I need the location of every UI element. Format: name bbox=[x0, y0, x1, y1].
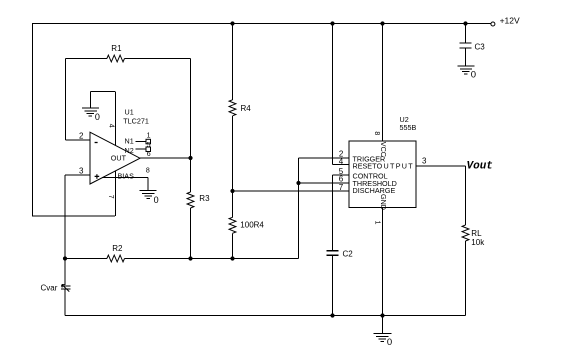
wire RL bottom lead bbox=[465, 241, 467, 316]
svg-text:DISCHARGE: DISCHARGE bbox=[353, 186, 396, 195]
svg-text:3: 3 bbox=[79, 167, 84, 176]
wire 555 threshold pin 6 bbox=[299, 182, 350, 184]
svg-text:VCC: VCC bbox=[379, 142, 388, 157]
svg-text:4: 4 bbox=[108, 124, 115, 128]
wire op-amp bias pin 8 bbox=[102, 177, 148, 179]
capacitor C3 bbox=[465, 24, 467, 43]
wire feedback loop left vertical bbox=[65, 59, 67, 141]
svg-text:8: 8 bbox=[373, 131, 380, 135]
wire outer bottom horizontal to op-amp pin7 bbox=[33, 215, 116, 217]
junction node bottom rail / gnd pin bbox=[381, 314, 384, 317]
resistor 100R4 bbox=[229, 217, 236, 233]
wire R4 to 100R4 bbox=[232, 116, 234, 218]
wire Cvar bottom lead bbox=[64, 289, 66, 316]
svg-text:U1: U1 bbox=[125, 108, 134, 117]
svg-text:5: 5 bbox=[147, 142, 151, 149]
wire 555 reset pin 4 bbox=[333, 164, 350, 166]
wire 555 gnd pin 1 vertical bbox=[382, 208, 384, 334]
svg-text:0: 0 bbox=[154, 195, 159, 205]
resistor R3 bbox=[187, 192, 194, 208]
wire feedback loop top (R1 left lead) bbox=[66, 58, 107, 60]
resistor R2 bbox=[107, 255, 125, 262]
svg-text:10k: 10k bbox=[471, 238, 485, 247]
resistor R4 bbox=[229, 100, 236, 116]
svg-text:GND: GND bbox=[379, 194, 388, 210]
op-amp N1 terminal square bbox=[146, 139, 151, 144]
svg-text:0: 0 bbox=[95, 112, 100, 122]
junction node discharge / 100R4 bbox=[231, 189, 234, 192]
svg-text:1: 1 bbox=[147, 132, 151, 139]
wire R2 line left lead bbox=[65, 258, 107, 260]
wire op-amp pin 4 vertical bbox=[115, 92, 117, 145]
wire 555 vcc pin 8 vertical bbox=[382, 24, 384, 142]
wire pin4 ground horizontal bbox=[90, 91, 115, 93]
wire feedback loop right vertical bbox=[190, 59, 192, 159]
op-amp N1 offset pin lead bbox=[136, 141, 147, 143]
wire 100R4 bottom lead bbox=[232, 233, 234, 258]
junction node R2 line / R3 bbox=[189, 257, 192, 260]
svg-text:Vout: Vout bbox=[467, 160, 493, 172]
svg-text:4: 4 bbox=[339, 157, 344, 166]
svg-text:100R4: 100R4 bbox=[240, 220, 264, 229]
svg-text:8: 8 bbox=[146, 167, 150, 174]
svg-text:7: 7 bbox=[339, 183, 344, 192]
ground at 555 gnd bbox=[373, 334, 391, 342]
capacitor C2 bbox=[327, 251, 339, 255]
junction node top rail / C3 bbox=[464, 22, 467, 25]
svg-text:+12V: +12V bbox=[500, 16, 520, 26]
svg-text:TLC271: TLC271 bbox=[123, 117, 149, 126]
svg-text:RL: RL bbox=[471, 229, 482, 238]
terminal +12V circle bbox=[491, 22, 495, 26]
wire 555 discharge pin 7 bbox=[233, 190, 350, 192]
wire Cvar top lead bbox=[64, 259, 66, 286]
wire trigger riser vertical bbox=[298, 158, 300, 258]
svg-text:6: 6 bbox=[147, 151, 151, 158]
resistor RL bbox=[462, 225, 469, 241]
ground at op-amp bias bbox=[140, 191, 157, 199]
junction node op-amp output bbox=[189, 156, 192, 159]
svg-text:C3: C3 bbox=[475, 43, 486, 52]
wire R3 top lead bbox=[190, 158, 192, 192]
junction node top rail / R4 bbox=[231, 22, 234, 25]
op-amp N2 terminal square bbox=[146, 147, 151, 152]
op-amp N2 offset pin lead bbox=[136, 148, 147, 150]
IC U2 555B body bbox=[349, 141, 416, 207]
svg-text:3: 3 bbox=[422, 157, 427, 166]
svg-text:OUTPUT: OUTPUT bbox=[377, 162, 414, 171]
wire 555 control pin 5 bbox=[333, 174, 350, 176]
svg-text:0: 0 bbox=[471, 70, 476, 81]
svg-text:OUT: OUT bbox=[111, 154, 127, 163]
wire R4 branch top lead bbox=[232, 24, 234, 100]
wire bottom ground rail bbox=[65, 315, 466, 317]
wire Vout vertical to RL bbox=[465, 166, 467, 225]
svg-text:0: 0 bbox=[387, 337, 392, 348]
junction node top rail / vcc bbox=[381, 22, 384, 25]
svg-text:C2: C2 bbox=[343, 250, 354, 259]
wire control to C2 vertical bbox=[332, 175, 334, 250]
wire bias ground stub bbox=[147, 178, 149, 191]
wire op-amp pin 2 input bbox=[66, 139, 91, 141]
junction node bottom rail / C2 bbox=[331, 314, 334, 317]
svg-text:2: 2 bbox=[79, 132, 84, 141]
wire op-amp pin 7 vertical bbox=[115, 171, 117, 216]
wire top +12V rail bbox=[32, 23, 491, 25]
svg-text:R2: R2 bbox=[112, 244, 123, 253]
svg-text:BIAS: BIAS bbox=[118, 172, 135, 181]
junction node R2 line / 100R4 bbox=[231, 257, 234, 260]
resistor R1 bbox=[107, 55, 125, 62]
svg-text:Cvar: Cvar bbox=[41, 284, 58, 293]
svg-text:555B: 555B bbox=[400, 123, 417, 132]
junction node R2 line / pin3 bbox=[63, 257, 66, 260]
svg-text:1: 1 bbox=[373, 221, 380, 225]
junction node threshold / trigger bbox=[297, 181, 300, 184]
wire C2 bottom lead bbox=[332, 256, 334, 316]
wire R3 bottom lead bbox=[190, 208, 192, 259]
wire pin3 vertical down to R2 line bbox=[64, 175, 66, 259]
svg-text:7: 7 bbox=[107, 195, 114, 199]
wire op-amp pin 3 input bbox=[65, 174, 90, 176]
junction node top rail / reset bbox=[331, 22, 334, 25]
wire 555 reset pin 4 vertical from rail bbox=[332, 24, 334, 165]
svg-text:RESET: RESET bbox=[353, 162, 378, 171]
wire R2 line right bbox=[125, 258, 299, 260]
svg-text:R3: R3 bbox=[199, 194, 210, 203]
ground under C3 bbox=[457, 66, 474, 74]
svg-text:R1: R1 bbox=[111, 44, 122, 53]
ground at op-amp pin 4 bbox=[82, 108, 99, 116]
op-amp minus sign bbox=[95, 142, 98, 144]
op-amp U1 triangle bbox=[90, 132, 140, 184]
wire 555 output pin 3 bbox=[416, 165, 466, 167]
svg-text:R4: R4 bbox=[241, 104, 252, 113]
wire 555 trigger pin 2 bbox=[299, 157, 350, 159]
wire R1 right lead bbox=[125, 58, 191, 60]
svg-text:N1: N1 bbox=[125, 137, 134, 146]
capacitor Cvar variable bbox=[61, 286, 71, 289]
wire pin4 ground stub bbox=[89, 92, 91, 108]
op-amp plus sign bbox=[95, 174, 100, 179]
wire outer left vertical bbox=[32, 24, 34, 217]
wire op-amp output bbox=[140, 157, 191, 159]
